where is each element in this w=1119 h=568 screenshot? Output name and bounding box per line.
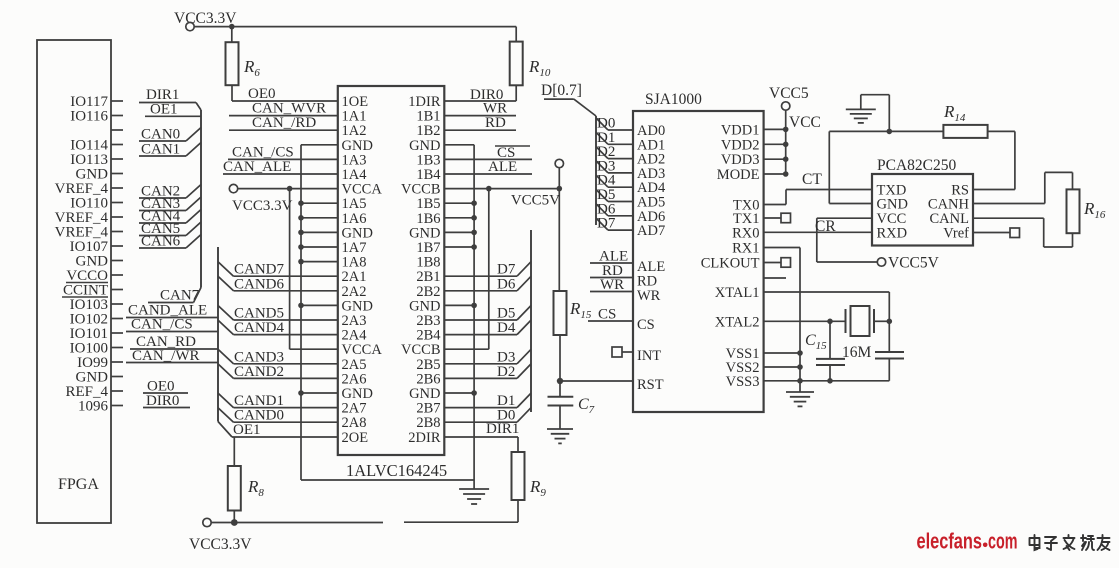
svg-text:D5: D5 [497, 306, 515, 322]
svg-text:VCC5: VCC5 [769, 85, 809, 102]
svg-text:1A7: 1A7 [342, 240, 367, 256]
svg-text:VSS3: VSS3 [726, 374, 760, 390]
svg-text:com: com [988, 529, 1018, 554]
svg-text:IO116: IO116 [70, 109, 108, 125]
svg-text:CS: CS [598, 307, 616, 323]
svg-text:GND: GND [409, 138, 440, 154]
svg-text:1B5: 1B5 [416, 196, 440, 212]
svg-text:INT: INT [637, 348, 661, 364]
svg-text:CAND3: CAND3 [234, 349, 284, 365]
svg-text:1A6: 1A6 [342, 211, 367, 227]
svg-text:1A8: 1A8 [342, 255, 367, 271]
svg-text:DIR0: DIR0 [146, 393, 179, 409]
svg-text:GND: GND [342, 225, 373, 241]
svg-text:CAND7: CAND7 [234, 262, 285, 278]
svg-text:2A3: 2A3 [342, 313, 367, 329]
svg-text:D7: D7 [597, 216, 616, 232]
svg-text:VCC5V: VCC5V [888, 255, 940, 272]
svg-text:GND: GND [409, 225, 440, 241]
svg-text:GND: GND [342, 298, 373, 314]
svg-text:XTAL1: XTAL1 [715, 285, 760, 301]
svg-text:2A5: 2A5 [342, 357, 367, 373]
svg-text:2B2: 2B2 [416, 284, 440, 300]
svg-text:1A2: 1A2 [342, 123, 367, 139]
svg-text:RXD: RXD [877, 226, 908, 242]
svg-text:2A8: 2A8 [342, 415, 367, 431]
svg-text:CAN1: CAN1 [141, 142, 180, 158]
svg-text:OE1: OE1 [233, 422, 261, 438]
svg-text:D3: D3 [497, 349, 515, 365]
svg-text:CAND2: CAND2 [234, 364, 284, 380]
svg-text:CAN0: CAN0 [141, 127, 180, 143]
svg-text:1B2: 1B2 [416, 123, 440, 139]
svg-text:CAND5: CAND5 [234, 306, 284, 322]
svg-text:CAND1: CAND1 [234, 393, 284, 409]
svg-text:1B8: 1B8 [416, 255, 440, 271]
svg-text:CAND4: CAND4 [234, 320, 285, 336]
svg-text:CAN6: CAN6 [141, 234, 181, 250]
svg-text:GND: GND [342, 138, 373, 154]
svg-text:VCC3.3V: VCC3.3V [174, 10, 237, 27]
svg-text:2OE: 2OE [342, 430, 369, 446]
svg-text:2B7: 2B7 [416, 401, 440, 417]
svg-text:Vref: Vref [943, 226, 969, 242]
svg-text:VCCA: VCCA [342, 342, 383, 358]
svg-text:1DIR: 1DIR [408, 94, 441, 110]
svg-text:1ALVC164245: 1ALVC164245 [346, 461, 447, 480]
svg-text:GND: GND [342, 386, 373, 402]
svg-text:D2: D2 [497, 364, 515, 380]
svg-text:1A3: 1A3 [342, 152, 367, 168]
svg-text:VCCB: VCCB [401, 342, 441, 358]
svg-text:VCCB: VCCB [401, 182, 441, 198]
svg-text:VCC3.3V: VCC3.3V [189, 536, 252, 553]
svg-text:2A4: 2A4 [342, 328, 368, 344]
svg-text:OE1: OE1 [150, 102, 178, 118]
svg-text:RD: RD [485, 115, 506, 131]
svg-text:CAN_/CS: CAN_/CS [232, 144, 294, 160]
svg-text:GND: GND [877, 197, 908, 213]
svg-text:2A7: 2A7 [342, 401, 367, 417]
svg-text:WR: WR [600, 277, 624, 293]
svg-text:1A5: 1A5 [342, 196, 367, 212]
svg-text:FPGA: FPGA [58, 476, 99, 493]
svg-text:PCA82C250: PCA82C250 [877, 157, 956, 174]
svg-text:D4: D4 [497, 320, 516, 336]
svg-text:2B5: 2B5 [416, 357, 440, 373]
svg-text:D1: D1 [497, 393, 515, 409]
svg-text:CLKOUT: CLKOUT [701, 256, 760, 272]
svg-text:SJA1000: SJA1000 [645, 91, 702, 108]
svg-text:VDD1: VDD1 [721, 122, 760, 138]
svg-text:1A1: 1A1 [342, 109, 367, 125]
svg-text:2DIR: 2DIR [408, 430, 441, 446]
svg-text:2B3: 2B3 [416, 313, 440, 329]
svg-text:1B1: 1B1 [416, 109, 440, 125]
svg-text:16M: 16M [842, 344, 872, 361]
svg-text:XTAL2: XTAL2 [715, 314, 760, 330]
svg-text:GND: GND [409, 298, 440, 314]
svg-text:CANH: CANH [928, 197, 970, 213]
svg-text:CAN_ALE: CAN_ALE [223, 159, 291, 175]
svg-text:2A1: 2A1 [342, 269, 367, 285]
svg-text:elecfans: elecfans [917, 529, 983, 554]
svg-text:1096: 1096 [78, 399, 109, 415]
svg-text:1B6: 1B6 [416, 211, 440, 227]
svg-text:1B4: 1B4 [416, 167, 441, 183]
svg-text:D6: D6 [497, 276, 516, 292]
svg-text:2B6: 2B6 [416, 371, 440, 387]
svg-text:CAN_WVR: CAN_WVR [252, 101, 326, 117]
svg-text:DIR1: DIR1 [486, 421, 519, 437]
svg-text:2B1: 2B1 [416, 269, 440, 285]
svg-text:2A2: 2A2 [342, 284, 367, 300]
svg-text:GND: GND [409, 386, 440, 402]
svg-text:VDD3: VDD3 [721, 152, 760, 168]
svg-text:CR: CR [815, 218, 836, 235]
svg-text:WR: WR [637, 288, 661, 304]
svg-text:D7: D7 [497, 262, 516, 278]
svg-text:CAND6: CAND6 [234, 276, 285, 292]
svg-text:1A4: 1A4 [342, 167, 368, 183]
svg-text:AD7: AD7 [637, 223, 665, 239]
svg-text:VCC3.3V: VCC3.3V [232, 198, 293, 214]
svg-text:VCC: VCC [789, 114, 821, 131]
svg-text:1B3: 1B3 [416, 152, 440, 168]
svg-text:MODE: MODE [717, 167, 760, 183]
svg-text:ALE: ALE [488, 159, 517, 175]
svg-text:CAN_/WR: CAN_/WR [132, 348, 200, 364]
svg-text:RX1: RX1 [732, 241, 759, 257]
svg-text:CAN_/CS: CAN_/CS [131, 317, 193, 333]
svg-text:RST: RST [637, 377, 664, 393]
svg-text:1B7: 1B7 [416, 240, 440, 256]
svg-text:CAN_/RD: CAN_/RD [252, 115, 316, 131]
svg-text:2A6: 2A6 [342, 371, 367, 387]
svg-text:VCCA: VCCA [342, 182, 383, 198]
svg-text:2B4: 2B4 [416, 328, 441, 344]
svg-text:1OE: 1OE [342, 94, 369, 110]
svg-text:VCC5V: VCC5V [511, 193, 560, 209]
svg-text:CT: CT [802, 171, 822, 188]
svg-text:D[0.7]: D[0.7] [541, 82, 582, 99]
svg-text:OE0: OE0 [248, 86, 276, 102]
svg-text:RX0: RX0 [732, 225, 759, 241]
svg-text:WR: WR [483, 101, 507, 117]
svg-text:CS: CS [637, 317, 655, 333]
svg-text:2B8: 2B8 [416, 415, 440, 431]
svg-text:VDD2: VDD2 [721, 137, 760, 153]
